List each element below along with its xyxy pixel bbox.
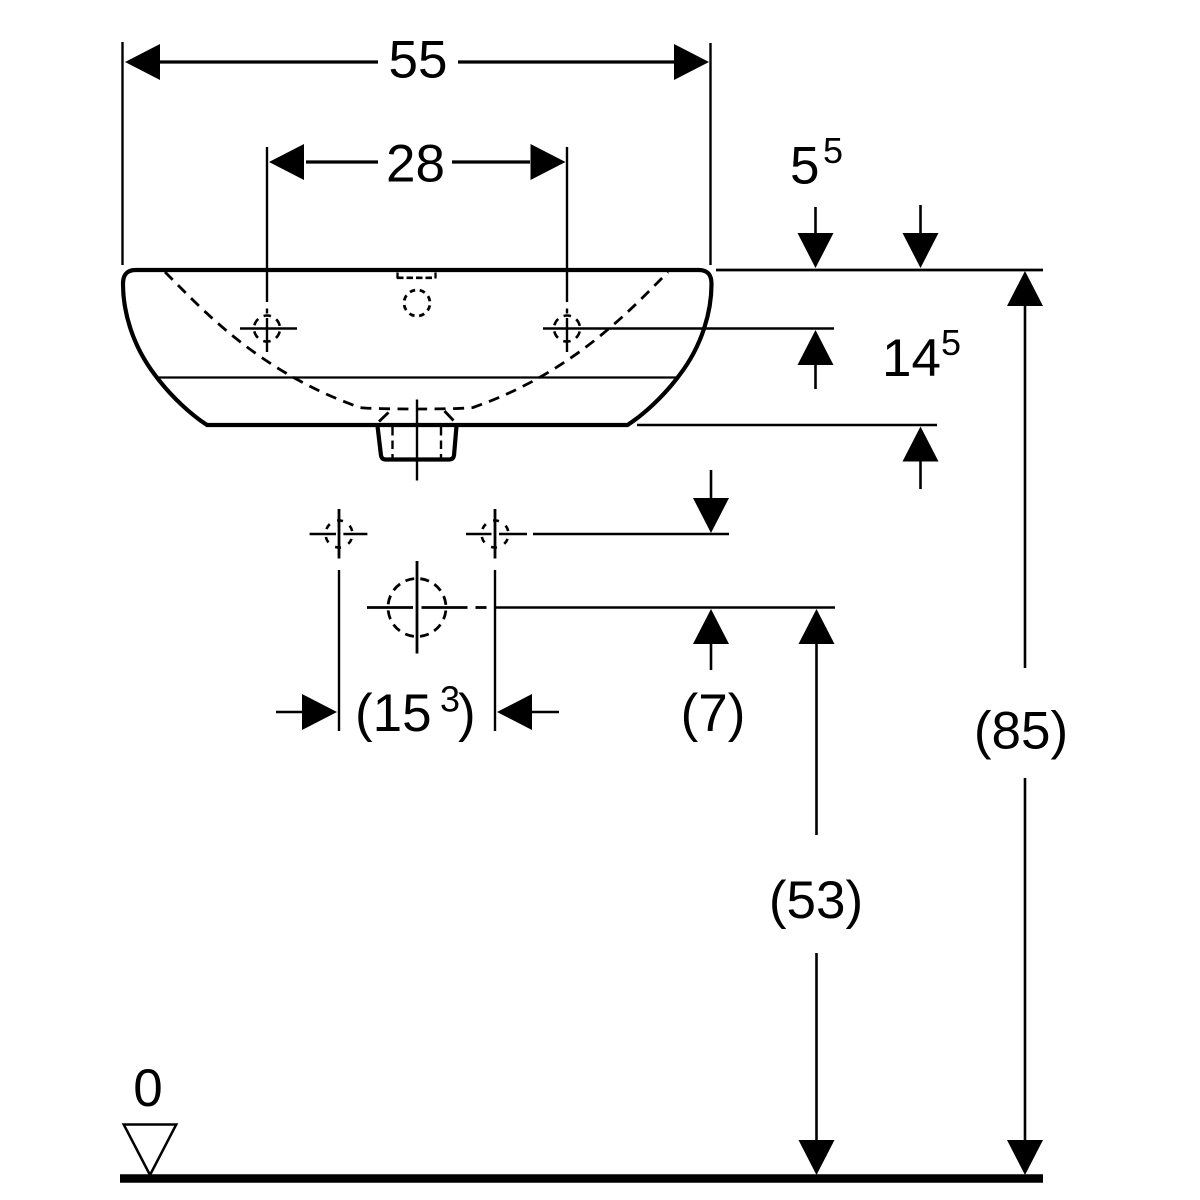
svg-text:5: 5 [941,322,961,363]
svg-text:0: 0 [133,1059,162,1118]
svg-text:(7): (7) [681,684,746,743]
washbasin technical drawing [120,42,1043,1179]
drain outlet [378,426,457,460]
left fixing hole [310,509,368,559]
dimension 28: right extension line through right tap hole [566,147,568,352]
svg-text:5: 5 [823,130,843,171]
left fixing hole extension line down [338,570,340,731]
(7) up arrow onto siphon line [693,609,729,644]
svg-text:28: 28 [386,135,445,194]
dimension 55: left extension line [121,42,123,265]
center overflow hole dashed circle [404,290,430,316]
dimension (15.3): left arrow [276,711,305,714]
rim level line (right of basin) [716,269,1043,272]
dimension 28: right arrowhead [531,144,566,180]
dimension 28: left extension line through left tap hole [266,147,268,352]
washbasin outline [123,270,712,425]
right fixing hole extension line down [494,570,496,731]
basin inner front edge line [158,376,677,378]
dimension 55: left arrowhead [125,44,160,80]
tap hole level line (14.5 top) [543,327,834,330]
5.5 dim: down arrow 1 [814,207,817,236]
dashed bowl curve [165,272,668,409]
fixing holes level line [533,533,729,536]
drain dashed inner lines [393,427,442,459]
dimension 55: dimension line [158,60,378,63]
dimension 55: right arrowhead [674,44,709,80]
drain centerline [416,400,418,481]
(85) dimension line with arrows [1007,271,1043,306]
right fixing hole [466,509,527,559]
svg-text:): ) [458,684,476,743]
funnel dash right [445,411,454,421]
svg-text:5: 5 [790,136,819,195]
svg-text:(53): (53) [769,871,863,930]
ground line [120,1174,1043,1183]
siphon level line [494,606,835,609]
svg-text:14: 14 [882,329,941,388]
left tap hole crosshair [240,316,297,342]
dimension (15.3): right arrow [497,694,532,730]
svg-text:55: 55 [389,31,448,90]
datum zero triangle [124,1125,177,1176]
14.5 dim: up arrow at basin bottom line [903,427,939,462]
dimension 55: right extension line [709,43,711,265]
dimension 28: left arrowhead [269,144,304,180]
svg-text:(85): (85) [974,702,1068,761]
5.5 dim: down arrow 2 (14.5 top arrow) [919,205,922,236]
funnel dash left [379,413,389,422]
basin bottom level line [637,424,937,427]
(7) down arrow onto fixing line [710,470,713,499]
dashed tap slot below rim [397,273,436,279]
dimension 28: dimension line [306,160,378,163]
(53) dimension line with arrows [799,609,835,644]
right tap hole crosshair [554,316,580,342]
siphon hole [367,561,487,654]
5.5 dim: up arrow at tap hole line [798,330,834,365]
svg-text:(15: (15 [355,684,432,743]
